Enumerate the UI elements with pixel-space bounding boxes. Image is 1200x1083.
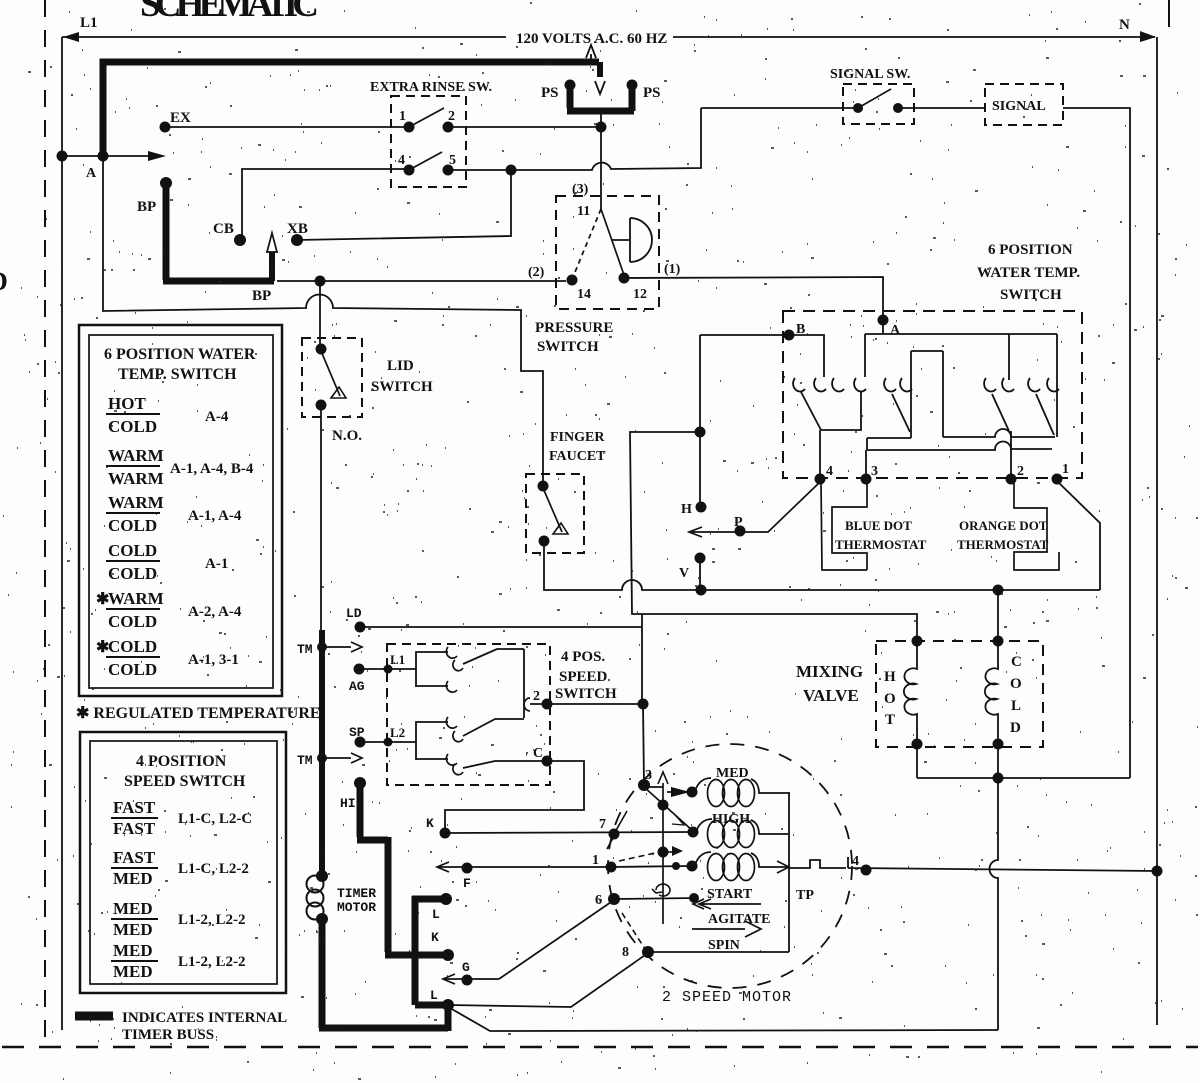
junction dot XB riser [506,165,517,176]
pressure switch diaphragm horn [612,218,652,262]
junction dot A [878,315,889,326]
terminal dot BP top [160,177,172,189]
svg-text:SWITCH: SWITCH [371,379,433,395]
junction dot cold bottom [993,739,1004,750]
motor blade 3 to high [644,787,693,831]
svg-text:ORANGE DOT: ORANGE DOT [959,518,1048,533]
svg-text:WARM: WARM [108,469,164,488]
terminal 3 riser [865,450,867,477]
wire signal switch to SIGNAL box [898,107,985,109]
terminal 2 riser [1010,431,1012,477]
svg-text:L1-C, L2-2: L1-C, L2-2 [178,861,249,877]
table speed outer box [80,732,286,993]
svg-text:H: H [884,669,896,685]
table water temp inner box [89,335,273,688]
finger faucet blade [543,488,562,532]
table water temp outer box [79,325,282,696]
svg-text:(1): (1) [664,262,681,277]
terminal dot 2 [1006,474,1017,485]
contact dot faucet bottom [539,536,550,547]
lid switch dashed box [302,338,362,417]
terminal dot PS left [565,80,576,91]
svg-text:3: 3 [871,464,878,479]
svg-text:HIGH: HIGH [712,812,750,827]
START winding [708,854,725,881]
START exit arrow into bus [777,861,789,873]
terminal dot AG [354,664,365,675]
AGITATE arrow [693,899,761,909]
svg-text:A-2, A-4: A-2, A-4 [188,604,242,620]
terminal dot 2 speed [542,699,553,710]
contact dot lid bottom [316,400,327,411]
L2 hook top [446,717,457,728]
water temp bar [865,333,1057,335]
wire 8 spin line [648,951,789,953]
arrowhead right on 120V rail [1140,31,1156,42]
finger faucet blade triangle [553,523,568,534]
svg-text:8: 8 [622,945,629,960]
svg-text:WARM: WARM [108,446,164,465]
junction dot valve return [993,773,1004,784]
L2 blade [463,719,524,736]
svg-text:14: 14 [577,287,591,302]
svg-text:LD: LD [346,606,362,621]
TP protector notch [789,857,1157,871]
wire L to 8 diagonal [448,953,648,1007]
svg-text:HOT: HOT [108,394,146,413]
3 node link to shaft [645,786,663,788]
svg-text:L1: L1 [80,15,98,31]
junction dot 7 [609,829,620,840]
temp switch blade 2 [892,394,910,432]
contact dot faucet top [538,481,549,492]
L1 pole bracket [416,652,448,687]
contact dot signal left [853,103,863,113]
terminal dot N rail [1152,866,1163,877]
stationary contact hooks [793,378,805,391]
junction dot A buss [98,151,109,162]
wire LD to riser [360,626,642,628]
wire lid riser upper [319,281,321,349]
TM lower arrow [317,753,327,763]
speed switch dashed box [387,644,550,785]
svg-text:WARM: WARM [108,493,164,512]
svg-text:L1: L1 [390,652,405,667]
svg-text:PS: PS [541,85,559,101]
svg-text:6 POSITION WATER: 6 POSITION WATER [104,346,256,363]
svg-text:TIMER: TIMER [337,886,376,901]
MED lead arrow [667,791,672,793]
svg-text:EXTRA RINSE SW.: EXTRA RINSE SW. [370,80,492,95]
wire V to line [699,558,701,590]
junction dot shaft lower [658,847,669,858]
svg-text:COLD: COLD [108,637,157,656]
TM upper arrow [317,642,327,652]
svg-text:MED: MED [716,766,749,781]
terminal dot L lower [442,999,454,1011]
svg-text:VALVE: VALVE [803,686,859,705]
wire hot feed riser [641,614,643,704]
junction dot coil top [316,870,328,882]
wire extra rinse 2 to PS junction [448,126,601,128]
terminal dot XB [291,234,303,246]
svg-text:H: H [681,502,692,517]
svg-text:MED: MED [113,962,153,981]
svg-text:COLD: COLD [108,660,157,679]
speed common riser [523,649,525,718]
svg-text:2: 2 [1017,464,1024,479]
wire valve return down with hop [990,778,999,1030]
MED winding [708,780,725,807]
timer buss C bracket [412,896,444,1005]
wire cold feed [997,590,999,641]
wire XB to contact row [297,170,511,240]
bar drop to hook 4 [864,334,866,377]
wire BP to pressure switch 14 [277,280,566,282]
wire lid bottom down [320,405,322,632]
svg-text:F: F [463,876,471,891]
wire A down and across with hop [103,158,543,484]
svg-text:T: T [885,712,895,728]
svg-text:(2): (2) [528,265,545,280]
motor dashed circle [608,744,852,988]
contact dot 14 [567,275,578,286]
svg-text:TM: TM [297,753,313,768]
terminal dot F [462,863,473,874]
wire PS junction down to apex [600,130,602,209]
svg-text:AGITATE: AGITATE [708,912,771,927]
L1 blade curl [453,660,463,671]
svg-text:7: 7 [599,817,606,832]
svg-text:A-4: A-4 [205,409,229,425]
svg-text:O: O [884,691,896,707]
page border dashed top-right stub [1168,0,1170,27]
bar drop to hook 8 [1008,334,1010,380]
wire CB up to contact row [242,169,409,238]
wire terminal4 to blue thermostat [821,481,867,570]
junction dot V line [696,585,707,596]
speed C blade curl [453,764,463,775]
junction dot START [687,861,698,872]
finger faucet dashed box [526,474,584,553]
terminal dot CB [234,234,246,246]
svg-text:FINGER: FINGER [550,430,605,445]
junction dot start small [672,862,680,870]
junction dot HIGH [688,827,699,838]
SIGNAL dashed box [985,84,1063,125]
wire PS U to junction [600,114,602,124]
svg-text:L: L [432,907,440,922]
water temp switch dashed box [783,311,1082,478]
svg-text:TIMER BUSS: TIMER BUSS [122,1027,214,1043]
terminal 4 riser [819,430,821,477]
terminal dot PS right [627,80,638,91]
svg-text:V: V [679,566,689,581]
temp switch blade 1 [801,392,821,430]
wire speed2 riser to 3 [643,704,644,785]
svg-text:4: 4 [398,153,405,168]
svg-text:1: 1 [399,109,406,124]
junction dot on left rail [57,151,68,162]
svg-text:COLD: COLD [108,564,157,583]
page border dashed bottom [2,1046,1198,1049]
svg-text:L1-2, L2-2: L1-2, L2-2 [178,954,246,970]
svg-text:THERMOSTAT: THERMOSTAT [835,537,927,552]
terminal dot EX [160,122,171,133]
junction dot 8 motor [642,946,654,958]
contact dot H [696,502,707,513]
terminal dot 3 [861,474,872,485]
wire 120V rail left segment [62,36,506,38]
blade1 link to hook4 [821,392,861,430]
terminal dot K [440,828,451,839]
terminal dot 4 [815,474,826,485]
wire 6 line [614,898,697,899]
L1 blade [463,649,524,664]
svg-text:2 SPEED MOTOR: 2 SPEED MOTOR [662,989,792,1006]
wire SIGNAL to right drop [1063,108,1130,778]
svg-text:MED: MED [113,869,153,888]
arrow up from buss to 120V rail [586,45,596,62]
terminal dot MED [687,787,698,798]
F arrow [437,862,449,872]
terminal dot L upper [440,893,452,905]
svg-text:SWITCH: SWITCH [1000,287,1062,303]
G arrow [443,974,455,984]
lid switch blade triangle [331,387,346,398]
wire HB to left rail down [630,432,917,641]
svg-text:C: C [1011,654,1022,670]
junction dot 3 motor [638,779,650,791]
temp switch blade 3 [992,394,1009,431]
wire right N rail vertical [1156,37,1158,1025]
svg-text:L: L [430,988,438,1003]
wire A into bar [882,320,884,334]
switch blade 1-2 [409,108,444,127]
svg-text:11: 11 [577,204,590,219]
bar drop right [1056,334,1058,437]
contact dot 2 [443,122,454,133]
lid switch blade [321,351,340,396]
shaft wiper arrow [666,851,674,853]
L1 hook top [446,647,457,658]
timer buss HI path [357,783,444,955]
hot solenoid coil [904,641,917,744]
signal switch blade [858,89,891,108]
svg-text:TEMP. SWITCH: TEMP. SWITCH [118,366,237,383]
contact dot 12 [619,273,630,284]
legend thick bar [75,1012,113,1021]
wire terminal 2 line [530,703,643,705]
svg-text:WATER TEMP.: WATER TEMP. [977,265,1080,281]
svg-text:SIGNAL SW.: SIGNAL SW. [830,67,910,82]
svg-text:BLUE DOT: BLUE DOT [845,518,912,533]
terminal dot HI [354,777,366,789]
wire terminal2 to orange thermostat [1014,481,1059,570]
speed terminal 2 hook [524,698,530,711]
wire 1 to start entry [611,866,692,867]
pressure switch dashed box [556,196,659,309]
svg-text:MOTOR: MOTOR [337,900,376,915]
junction dot hot bottom [912,739,923,750]
svg-text:O: O [1010,676,1022,692]
junction dot cold feed [993,585,1004,596]
contact dot V [695,553,706,564]
terminal dot 4 motor [861,865,872,876]
dashed linkage 1 to shaft [619,853,655,861]
svg-text:TP: TP [796,888,814,903]
svg-text:L: L [1011,698,1021,714]
contact dot 4 [404,165,415,176]
svg-text:1: 1 [1062,462,1069,477]
timer buss PS U-shape [567,84,634,111]
table speed inner box [90,741,277,984]
signal switch dashed box [843,84,914,124]
svg-text:START: START [707,887,753,902]
svg-text:4 POS.: 4 POS. [561,649,605,665]
svg-text:TM: TM [297,642,313,657]
mixing valve dashed box [876,641,1043,747]
svg-text:COLD: COLD [108,417,157,436]
svg-text:A-1, 3-1: A-1, 3-1 [188,652,239,668]
junction dot speed2 riser [638,699,649,710]
contact dot P [735,526,746,537]
terminal dot SP [355,737,366,748]
junction dot cold top [993,636,1004,647]
pressure switch blade to 12 [601,209,624,275]
timer buss top L shape [103,62,599,158]
svg-text:HI: HI [340,796,356,811]
junction dot 6 motor [608,893,620,905]
timer buss bottom L [319,919,448,1031]
svg-text:THERMOSTAT: THERMOSTAT [957,537,1049,552]
svg-text:A: A [86,166,97,181]
junction dot hot top [912,636,923,647]
terminal dot LD [355,622,366,633]
BP pencil arrow up [269,252,275,281]
L2 pole bracket [416,722,448,760]
svg-text:L2: L2 [390,725,405,740]
svg-text:✱ REGULATED TEMPERATURE: ✱ REGULATED TEMPERATURE [76,705,321,722]
HIGH winding [708,821,725,848]
terminal dot 6 line end [689,893,699,903]
junction dot SP box edge [384,738,393,747]
SPIN arrow [692,921,761,937]
svg-text:C: C [533,746,543,761]
7 node tick [607,811,627,849]
wire faucet bottom to V line [544,541,1100,590]
svg-text:4: 4 [826,464,833,479]
svg-text:MED: MED [113,920,153,939]
junction dot AG box edge [384,665,393,674]
motor right bus [788,792,790,952]
wire valve bottoms to signal drop [917,744,1130,778]
svg-text:K: K [431,930,439,945]
contact dot lid top [316,344,327,355]
svg-text:6 POSITION: 6 POSITION [988,242,1073,258]
svg-text:1: 1 [592,853,599,868]
svg-text:BP: BP [252,288,271,304]
svg-text:K: K [426,816,434,831]
selector crossbar top [867,429,1055,438]
svg-text:D: D [0,267,8,296]
temp switch blade 4 [1036,394,1054,435]
L2 blade curl [453,731,463,742]
svg-text:COLD: COLD [108,612,157,631]
svg-text:WARM: WARM [108,589,164,608]
selector crossbar left end [866,438,868,450]
wire AG to L1 pole [359,668,416,670]
contact dot signal right [893,103,903,113]
junction dot PS [596,122,607,133]
svg-text:FAST: FAST [113,848,156,867]
svg-text:AG: AG [349,679,365,694]
svg-text:MED: MED [113,899,153,918]
motor selector shaft [662,783,664,924]
svg-text:PRESSURE: PRESSURE [535,320,613,336]
L2 hook bottom [446,754,457,765]
svg-text:LID: LID [387,358,414,374]
wire G diagonal to 6 [499,900,614,979]
wire A arrow line [62,155,150,157]
svg-text:MIXING: MIXING [796,662,863,681]
contact dot 1 [404,122,415,133]
svg-text:A-1, A-4: A-1, A-4 [188,508,242,524]
svg-text:SPEED SWITCH: SPEED SWITCH [124,773,246,790]
junction dot coil bottom [316,913,328,925]
svg-text:COLD: COLD [108,516,157,535]
switch blade 4-5 [409,152,442,170]
svg-text:SPEED: SPEED [559,669,608,685]
cold solenoid coil [985,641,998,744]
timer buss BP L shape [163,183,274,281]
terminal dot C [542,756,553,767]
rotation symbol [652,884,670,896]
wire HB down to H [699,432,701,507]
contact dot 5 [443,165,454,176]
svg-text:4 POSITION: 4 POSITION [136,753,227,770]
wire into B [700,334,789,336]
timer motor coil [307,876,324,893]
svg-text:12: 12 [633,287,647,302]
svg-text:A-1, A-4, B-4: A-1, A-4, B-4 [170,461,254,477]
svg-text:A: A [890,323,901,338]
junction dot B [784,330,795,341]
wire B branch down [699,335,701,432]
svg-text:FAUCET: FAUCET [549,449,606,464]
svg-text:2: 2 [533,689,540,704]
terminal dot G [462,975,473,986]
wire left rail vertical [61,37,63,1030]
svg-text:FAST: FAST [113,798,156,817]
wire bottom return [450,1008,998,1031]
wire 12 to A corner [624,277,883,318]
svg-text:MED: MED [113,941,153,960]
svg-text:N: N [1119,17,1130,33]
svg-text:D: D [1010,720,1021,736]
wire K line [445,832,693,833]
svg-text:G: G [462,960,470,975]
svg-text:SIGNAL: SIGNAL [992,99,1046,114]
terminal dot 1 [1052,474,1063,485]
wire 120V rail right segment [673,36,1155,38]
arrowhead left on 120V rail [63,32,79,42]
svg-text:CB: CB [213,221,234,237]
svg-text:BP: BP [137,199,156,215]
svg-text:COLD: COLD [108,541,157,560]
extra rinse switch dashed box [391,96,466,187]
svg-text:EX: EX [170,110,191,126]
